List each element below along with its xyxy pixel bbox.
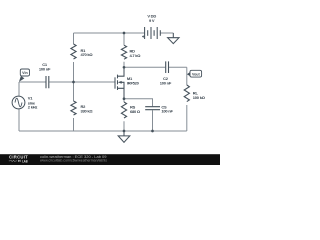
wire bottom rail xyxy=(19,130,187,132)
capacitor C2 xyxy=(166,61,169,73)
svg-text:9 V: 9 V xyxy=(149,18,155,23)
wire RL column top xyxy=(186,67,188,85)
svg-text:4.7 kΩ: 4.7 kΩ xyxy=(130,53,142,58)
svg-text:100 nF: 100 nF xyxy=(39,67,51,72)
node Vout flag xyxy=(187,70,202,77)
svg-text:330 kΩ: 330 kΩ xyxy=(81,109,94,114)
svg-text:www.circuitlab.com/c6w/weather: www.circuitlab.com/c6w/weatherman/lab9s xyxy=(40,159,107,163)
resistor RD xyxy=(121,45,126,59)
svg-text:680 Ω: 680 Ω xyxy=(130,109,141,114)
wire V1 column top xyxy=(18,82,20,96)
capacitor CS xyxy=(145,107,160,110)
wire CS bottom xyxy=(152,110,154,131)
wire gate row left of C1 xyxy=(19,81,46,83)
resistor RS xyxy=(121,102,126,118)
svg-text:100 nF: 100 nF xyxy=(161,109,173,114)
battery V DD xyxy=(142,27,160,39)
transistor M1 (NMOS IRF520) xyxy=(115,67,124,98)
wire RL column bottom xyxy=(186,105,188,131)
capacitor C1 xyxy=(46,76,49,88)
wire R2 column xyxy=(73,82,75,131)
ground (battery negative, top right) xyxy=(168,33,179,44)
junction dots xyxy=(72,32,154,133)
svg-text:470 kΩ: 470 kΩ xyxy=(81,52,94,57)
wire gate row right of C1 xyxy=(49,81,115,83)
svg-text:100 nF: 100 nF xyxy=(160,80,172,85)
wire drain row with C2 xyxy=(124,66,187,68)
wire RD column xyxy=(123,33,125,67)
labels xyxy=(28,14,206,114)
wire top rail xyxy=(74,32,145,34)
wire battery to ground xyxy=(160,32,173,34)
svg-text:LAB: LAB xyxy=(22,159,28,163)
resistor R2 xyxy=(71,101,76,115)
footer bar xyxy=(0,154,220,165)
wire V1 column bottom xyxy=(18,109,20,131)
svg-text:100 kΩ: 100 kΩ xyxy=(193,95,206,100)
wire R1 column xyxy=(73,33,75,82)
wire source row to CS xyxy=(124,99,153,107)
svg-text:Vout: Vout xyxy=(192,72,201,76)
wire RS column xyxy=(123,99,125,131)
svg-text:Vin: Vin xyxy=(22,71,28,75)
svg-text:2 kHz: 2 kHz xyxy=(28,105,38,110)
resistor RL xyxy=(184,85,189,102)
resistor R1 xyxy=(71,44,76,59)
source V1 sine xyxy=(12,96,25,109)
ground (bottom rail) xyxy=(118,131,130,142)
node Vin flag xyxy=(19,69,30,82)
svg-text:IRF520: IRF520 xyxy=(127,80,140,85)
